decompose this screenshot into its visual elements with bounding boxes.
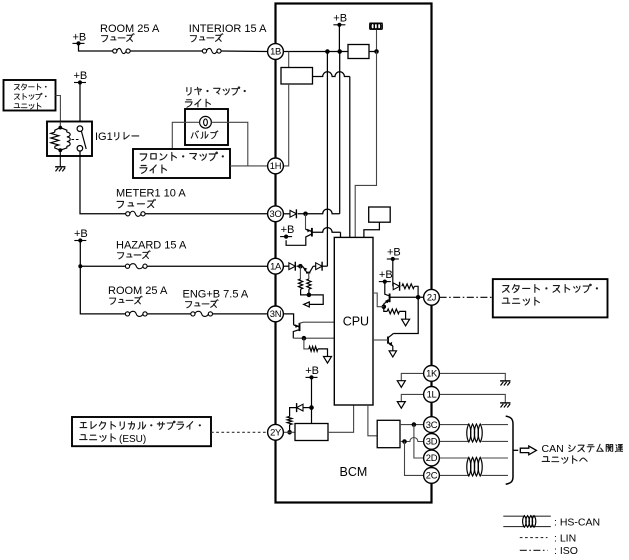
junction dots on 1B line — [325, 49, 330, 54]
node 2D — [424, 450, 440, 466]
wire Q4 emitter to CPU — [373, 293, 384, 307]
signal ground arrow (R3) — [324, 357, 332, 364]
signal arrow (1K) — [397, 381, 405, 388]
svg-text:IG1: IG1 — [95, 131, 113, 143]
resistor R4 (2Y) — [287, 416, 292, 424]
wire transceiver to 3D (hops vertical) — [405, 438, 424, 442]
transistor Q1 (3O high-side) — [305, 214, 307, 230]
wire +B down to hazard line — [79, 241, 81, 267]
wire ROOM fuse to INTERIOR fuse — [130, 50, 202, 52]
resistor R5 (2J) — [402, 284, 415, 289]
svg-text:HAZARD 15 A: HAZARD 15 A — [116, 240, 187, 252]
wire node 3N to Q3 — [283, 314, 293, 325]
block arrow (to CAN system units) — [520, 446, 536, 455]
diode (2J) — [393, 283, 399, 290]
wire resistor bottoms join — [301, 289, 324, 304]
svg-text:1K: 1K — [426, 368, 438, 379]
wire diode to junction, hop over vertical — [298, 209, 340, 214]
fuse INTERIOR 15 A — [202, 49, 206, 53]
label fuse (katakana) — [190, 34, 223, 42]
signal arrow (to CPU input, left) — [304, 302, 310, 307]
wire 2D right — [440, 457, 470, 459]
wire 1L right to ground — [440, 394, 506, 403]
wire +B to relay switch — [79, 83, 81, 127]
wire to HAZARD fuse — [80, 265, 125, 267]
wire regulator to node 1H — [283, 84, 288, 166]
node 3D — [424, 434, 440, 450]
node 1L — [424, 387, 440, 403]
transistor Q4 (2J driver) — [385, 282, 390, 296]
label rear map light (katakana, 2 lines) — [187, 87, 246, 95]
relay ground lead — [59, 150, 61, 166]
wire 1K right to ground — [440, 373, 506, 381]
wire CPU to CAN transceiver — [368, 405, 377, 436]
BCM box outline — [276, 4, 432, 503]
svg-text:3N: 3N — [270, 308, 281, 319]
wire ROOM fuse to ENG fuse — [147, 313, 191, 315]
transistor Q2 (1A, rotated) — [306, 272, 310, 274]
regulator box (below 1B) — [281, 68, 313, 85]
svg-text:CAN: CAN — [542, 443, 564, 455]
resistor R6 (Q4 emitter) — [384, 307, 387, 312]
label bulb (katakana) — [191, 131, 218, 139]
wire node 2Y to box — [283, 431, 295, 433]
legend LIN symbol — [520, 537, 548, 539]
label fuse (katakana) — [117, 199, 155, 208]
resistor R1 (1A) — [299, 266, 301, 279]
wire HAZARD fuse to node 1A — [147, 265, 268, 267]
bracket (CAN harness group) — [506, 416, 513, 484]
ISO dash-dot wire 2J to start-stop unit — [440, 296, 493, 298]
wire down to ROOM/ENG line — [80, 266, 125, 314]
Q5 base from CPU — [373, 339, 388, 341]
diode (2Y clamp, pointing left) — [303, 407, 312, 409]
Q5 emitter — [388, 342, 393, 346]
Q1 base line to CPU, hop over vertical — [312, 228, 341, 233]
wire 1K left to signal arrow — [401, 373, 423, 380]
wire start-stop unit to relay coil — [56, 96, 61, 127]
component box (oscillator) — [369, 207, 391, 222]
fuse ROOM 25 A (lower) — [125, 312, 129, 316]
bulb symbol — [200, 116, 212, 128]
fuse ENG+B 7.5 A — [191, 312, 195, 316]
component box (series element on 1B line) — [348, 45, 369, 59]
svg-text:2Y: 2Y — [270, 427, 282, 438]
wire +B down to box — [311, 377, 313, 423]
CPU box — [334, 237, 373, 405]
wire METER1 fuse to node 3O — [145, 213, 268, 215]
signal arrow (1L) — [397, 402, 405, 409]
signal ground arrow (R6) — [402, 319, 410, 326]
node 2C — [424, 468, 440, 484]
node 3C — [424, 417, 440, 433]
box start-stop unit (top left) — [4, 80, 56, 111]
node 1B — [268, 44, 284, 60]
diode (1A input) — [289, 263, 295, 270]
svg-text:1A: 1A — [270, 260, 282, 271]
wire 3C right — [440, 424, 470, 426]
svg-text:3C: 3C — [426, 419, 438, 430]
svg-text:ROOM 25 A: ROOM 25 A — [100, 23, 160, 35]
node 3N — [268, 306, 284, 322]
fuse METER1 10 A — [126, 212, 130, 216]
svg-text:ENG+B 7.5 A: ENG+B 7.5 A — [183, 289, 249, 301]
wire regulator output to CPU (hops two verticals) — [313, 72, 350, 77]
fuse HAZARD 15 A — [125, 264, 129, 268]
Q3 lower line to CPU — [293, 337, 334, 339]
ground (IG1 relay) — [55, 166, 65, 168]
svg-text:+B: +B — [74, 228, 88, 240]
svg-text:3D: 3D — [426, 436, 438, 447]
svg-text:2C: 2C — [426, 470, 438, 481]
branch 1B to regulator box — [288, 52, 290, 68]
wire +B to ROOM fuse — [79, 43, 113, 51]
relay coil (inside IG1) — [60, 128, 67, 133]
box CAN transceiver — [377, 420, 400, 447]
wire relay to METER1 fuse line — [80, 150, 126, 213]
label fuse (katakana) — [186, 300, 219, 308]
wire INTERIOR fuse to node 1B — [221, 50, 268, 53]
wire 3D right — [440, 440, 470, 442]
transistor Q5 (low side) — [387, 337, 389, 344]
svg-text:1B: 1B — [270, 46, 281, 57]
wire 2J junction down to Q5 — [393, 297, 418, 333]
fuse ROOM 25 A — [113, 49, 117, 53]
junction on hazard line — [78, 264, 82, 268]
legend ISO symbol — [520, 549, 548, 551]
wire +B to 1B line — [338, 25, 340, 52]
svg-text:CPU: CPU — [343, 314, 369, 328]
wire branch down to 2C — [405, 442, 424, 476]
wire CAN icon down to 1B line — [376, 30, 378, 52]
LIN dashed wire ESU to node 2Y — [211, 431, 267, 433]
label fuse (katakana) — [118, 251, 151, 259]
junction dot (1A line) — [297, 265, 303, 267]
node 2J — [424, 289, 440, 305]
svg-text:+B: +B — [74, 70, 88, 82]
relay mechanical link (dashed) — [72, 139, 80, 141]
relay switch contacts — [77, 126, 83, 132]
svg-text:3O: 3O — [270, 208, 282, 219]
ground (1L) — [500, 402, 510, 404]
svg-text:+B: +B — [387, 247, 401, 259]
svg-text:: ISO: : ISO — [554, 545, 578, 557]
node 1H — [268, 158, 284, 174]
svg-text:+B: +B — [281, 224, 295, 236]
wire diode to resistor R4 — [290, 408, 297, 417]
diode (1A to 1B pull-up) — [316, 263, 322, 270]
wire branch down to 2D — [414, 425, 424, 458]
svg-text:1H: 1H — [270, 160, 281, 171]
wire node 1A to diode — [283, 265, 289, 267]
wire ENG fuse to node 3N — [213, 313, 268, 315]
wire R5 to 2J junction — [414, 286, 418, 297]
wire node 3O to diode — [283, 213, 290, 215]
svg-text:+B: +B — [379, 269, 393, 281]
svg-text:ROOM 25 A: ROOM 25 A — [108, 285, 168, 297]
resistor R2 (Q2 base) — [308, 273, 310, 279]
twisted pair (3C/3D HS-CAN) — [467, 424, 471, 442]
signal ground arrow (Q5) — [389, 351, 396, 357]
junction dot (3O line) — [303, 212, 308, 217]
transistor Q3 (3N) — [299, 323, 301, 331]
relay switch blade — [81, 131, 86, 149]
box electrical supply unit (ESU) — [72, 417, 211, 446]
box start-stop unit (right) — [493, 279, 608, 317]
vertical 1B to 3O line — [339, 52, 341, 214]
Q4 base to 2J line — [390, 296, 424, 298]
wire CAN line to CPU (jog) — [355, 52, 376, 238]
Q4 emitter — [384, 301, 390, 304]
legend HS-CAN symbol — [503, 515, 524, 517]
ground (1K) — [500, 380, 510, 382]
component box (2Y interface) — [295, 424, 328, 441]
wire front light to node 1H — [230, 165, 268, 167]
wire node 1B bus line — [283, 51, 348, 53]
svg-text:1L: 1L — [427, 389, 437, 400]
wire diode to vertical — [322, 265, 327, 267]
label fuse (katakana) — [102, 34, 135, 42]
svg-text:INTERIOR 15 A: INTERIOR 15 A — [189, 23, 267, 35]
wire 2C right — [440, 474, 470, 476]
wire +B down to diode — [392, 259, 394, 286]
relay resistor (inside IG1) — [55, 128, 61, 133]
node 1A — [268, 258, 284, 274]
svg-text:+B: +B — [305, 365, 319, 377]
wire bulb right to 1H line — [211, 122, 247, 166]
wire 1L left to signal arrow — [401, 394, 423, 401]
relay coil branch top junction — [59, 122, 61, 128]
resistor R3 (Q3) — [304, 338, 309, 349]
svg-text:METER1 10 A: METER1 10 A — [116, 187, 186, 199]
svg-text:BCM: BCM — [340, 465, 368, 479]
vertical 1B to 1A diode — [326, 52, 328, 267]
diode (3O line) — [290, 210, 296, 217]
svg-text:+B: +B — [333, 12, 347, 24]
svg-text:2D: 2D — [426, 452, 438, 463]
wire 2Y box to CPU — [328, 405, 354, 432]
wire transceiver to 3C — [400, 424, 424, 426]
node 3O — [268, 206, 284, 222]
node 2Y — [268, 424, 284, 440]
svg-text:: HS-CAN: : HS-CAN — [554, 516, 600, 528]
wire oscillator to CPU — [364, 222, 380, 237]
relay IG1 box — [47, 122, 92, 157]
svg-text:(ESU): (ESU) — [119, 434, 146, 445]
label fuse (katakana) — [110, 296, 143, 304]
CAN bus mini icon (top) — [370, 22, 383, 24]
twisted pair (2D/2C HS-CAN) — [467, 457, 471, 476]
wire bulb left to front-light box — [185, 121, 200, 123]
node 1K — [424, 366, 440, 382]
box front map light — [133, 149, 230, 178]
svg-text:2J: 2J — [427, 292, 436, 303]
svg-text:: LIN: : LIN — [554, 532, 576, 544]
box bulb (rear map light) — [185, 109, 228, 145]
